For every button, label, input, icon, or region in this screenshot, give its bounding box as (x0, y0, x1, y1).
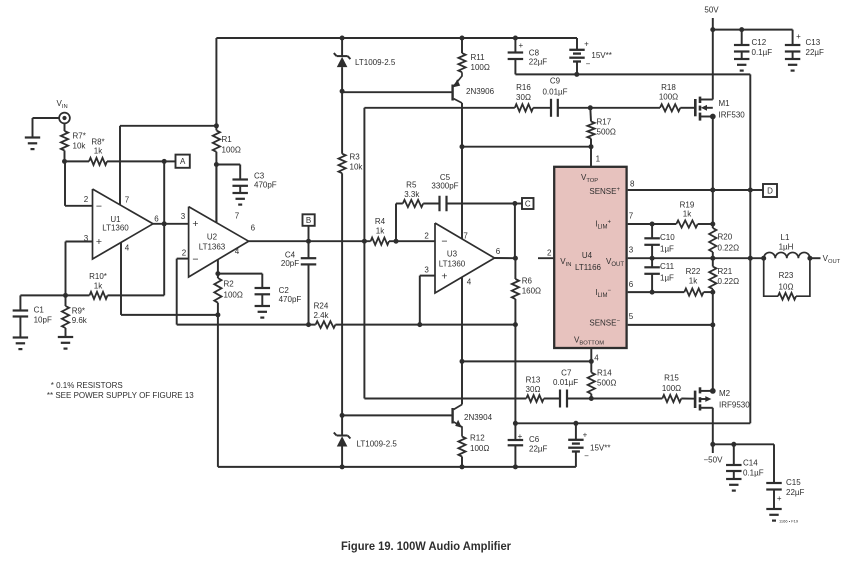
svg-text:3: 3 (424, 265, 429, 274)
svg-text:6: 6 (251, 223, 256, 232)
svg-text:R21: R21 (718, 267, 733, 276)
svg-text:+: + (192, 218, 198, 230)
svg-text:100Ω: 100Ω (659, 93, 678, 102)
svg-text:0.1µF: 0.1µF (743, 468, 764, 477)
svg-text:30Ω: 30Ω (516, 93, 531, 102)
svg-text:−: − (584, 452, 589, 461)
svg-text:3: 3 (629, 245, 634, 254)
svg-text:22µF: 22µF (806, 48, 825, 57)
svg-text:R5: R5 (406, 180, 417, 189)
svg-text:+: + (96, 236, 102, 248)
svg-text:U3: U3 (447, 250, 458, 259)
svg-text:6: 6 (496, 247, 501, 256)
svg-text:C3: C3 (254, 172, 265, 181)
svg-text:500Ω: 500Ω (597, 379, 616, 388)
svg-text:U2: U2 (207, 232, 218, 241)
svg-text:R19: R19 (680, 201, 695, 210)
svg-text:A: A (180, 157, 186, 166)
svg-text:R22: R22 (686, 267, 701, 276)
svg-text:4: 4 (594, 353, 599, 362)
svg-text:C6: C6 (529, 435, 540, 444)
svg-text:2: 2 (547, 248, 552, 257)
svg-text:100Ω: 100Ω (662, 384, 681, 393)
svg-text:6: 6 (629, 280, 634, 289)
svg-text:SENSE−: SENSE− (589, 319, 620, 328)
svg-text:1k: 1k (94, 147, 103, 156)
svg-text:−: − (441, 235, 447, 247)
svg-text:470pF: 470pF (279, 295, 302, 304)
svg-text:0.22Ω: 0.22Ω (718, 277, 740, 286)
svg-text:0.01µF: 0.01µF (553, 378, 578, 387)
svg-text:+: + (518, 41, 523, 50)
svg-text:+: + (584, 40, 589, 49)
svg-text:6: 6 (154, 215, 159, 224)
svg-text:R14: R14 (597, 369, 612, 378)
svg-text:160Ω: 160Ω (522, 287, 541, 296)
svg-text:R18: R18 (661, 83, 676, 92)
svg-text:7: 7 (629, 211, 634, 220)
svg-text:LT1009-2.5: LT1009-2.5 (357, 440, 398, 449)
svg-text:1k: 1k (94, 282, 103, 291)
svg-text:2: 2 (424, 231, 429, 240)
svg-text:R3: R3 (350, 152, 361, 161)
svg-text:R20: R20 (718, 233, 733, 242)
svg-text:LT1360: LT1360 (439, 260, 466, 269)
svg-text:2.4k: 2.4k (313, 311, 329, 320)
svg-text:10Ω: 10Ω (779, 283, 794, 292)
svg-text:Figure 19. 100W Audio Amplifie: Figure 19. 100W Audio Amplifier (341, 539, 511, 553)
svg-text:1µH: 1µH (779, 243, 794, 252)
svg-text:1µF: 1µF (660, 274, 674, 283)
svg-text:22µF: 22µF (786, 488, 805, 497)
svg-text:1166 • F19: 1166 • F19 (779, 519, 799, 524)
svg-text:0.22Ω: 0.22Ω (718, 244, 740, 253)
svg-text:7: 7 (463, 231, 468, 240)
svg-text:R17: R17 (597, 118, 612, 127)
svg-text:2: 2 (182, 249, 187, 258)
svg-text:R12: R12 (470, 434, 485, 443)
svg-text:** SEE POWER SUPPLY OF FIGURE: ** SEE POWER SUPPLY OF FIGURE 13 (47, 391, 194, 400)
svg-text:LT1360: LT1360 (102, 224, 129, 233)
svg-text:IRF530: IRF530 (719, 111, 746, 120)
svg-text:10k: 10k (73, 142, 87, 151)
svg-text:LT1009-2.5: LT1009-2.5 (355, 58, 396, 67)
svg-text:R15: R15 (664, 374, 679, 383)
svg-text:500Ω: 500Ω (597, 128, 616, 137)
svg-text:IRF9530: IRF9530 (719, 400, 750, 409)
svg-text:+: + (796, 32, 801, 41)
svg-text:C8: C8 (529, 49, 540, 58)
svg-text:R1: R1 (222, 135, 233, 144)
svg-text:0.1µF: 0.1µF (752, 48, 773, 57)
svg-text:D: D (767, 186, 773, 195)
svg-text:+: + (518, 432, 523, 441)
svg-text:R7*: R7* (73, 132, 86, 141)
svg-text:R11: R11 (471, 53, 486, 62)
svg-text:C14: C14 (743, 459, 758, 468)
svg-text:9.6k: 9.6k (72, 316, 88, 325)
svg-text:−50V: −50V (704, 456, 724, 465)
svg-text:4: 4 (467, 278, 472, 287)
svg-text:C13: C13 (806, 38, 821, 47)
svg-text:1µF: 1µF (660, 245, 674, 254)
svg-text:−: − (96, 201, 102, 213)
svg-text:10k: 10k (350, 163, 364, 172)
svg-text:C10: C10 (660, 233, 675, 242)
svg-text:R9*: R9* (72, 306, 85, 315)
svg-text:4: 4 (125, 243, 130, 252)
svg-text:3: 3 (181, 212, 186, 221)
svg-text:15V**: 15V** (591, 51, 611, 60)
svg-text:5: 5 (629, 312, 634, 321)
svg-text:8: 8 (630, 179, 635, 188)
svg-text:7: 7 (125, 196, 130, 205)
svg-text:2N3906: 2N3906 (466, 87, 495, 96)
svg-text:C2: C2 (279, 286, 290, 295)
svg-text:B: B (306, 216, 311, 225)
svg-text:* 0.1% RESISTORS: * 0.1% RESISTORS (51, 381, 123, 390)
svg-text:C15: C15 (786, 478, 801, 487)
svg-text:C11: C11 (660, 262, 675, 271)
svg-text:100Ω: 100Ω (470, 444, 489, 453)
svg-text:M2: M2 (719, 389, 731, 398)
svg-text:10pF: 10pF (34, 316, 52, 325)
svg-text:M1: M1 (719, 99, 731, 108)
svg-text:22µF: 22µF (529, 58, 548, 67)
svg-text:3.3k: 3.3k (404, 190, 420, 199)
svg-text:R6: R6 (522, 277, 533, 286)
svg-text:100Ω: 100Ω (471, 63, 490, 72)
svg-text:SENSE+: SENSE+ (589, 187, 620, 196)
svg-text:R10*: R10* (89, 272, 107, 281)
svg-text:3300pF: 3300pF (431, 182, 458, 191)
svg-text:R8*: R8* (91, 138, 104, 147)
svg-text:C12: C12 (752, 38, 767, 47)
svg-text:R4: R4 (375, 217, 386, 226)
svg-text:+: + (441, 270, 447, 282)
svg-text:C: C (525, 199, 531, 208)
svg-text:4: 4 (235, 247, 240, 256)
svg-text:100Ω: 100Ω (222, 146, 241, 155)
svg-text:R24: R24 (314, 302, 329, 311)
svg-text:15V**: 15V** (590, 444, 610, 453)
svg-text:+: + (777, 494, 782, 503)
svg-text:−: − (192, 253, 198, 265)
svg-text:7: 7 (235, 212, 240, 221)
svg-text:C4: C4 (285, 250, 296, 259)
svg-text:LT1166: LT1166 (575, 263, 601, 272)
svg-text:L1: L1 (781, 233, 790, 242)
svg-text:2: 2 (84, 195, 89, 204)
svg-text:R13: R13 (526, 376, 541, 385)
svg-text:R16: R16 (516, 83, 531, 92)
svg-text:R23: R23 (779, 271, 794, 280)
svg-text:LT1363: LT1363 (199, 242, 226, 251)
svg-text:0.01µF: 0.01µF (542, 88, 567, 97)
svg-text:−: − (586, 60, 591, 69)
svg-text:20pF: 20pF (281, 259, 299, 268)
svg-text:22µF: 22µF (529, 445, 548, 454)
svg-text:470pF: 470pF (254, 181, 277, 190)
svg-text:C1: C1 (34, 306, 45, 315)
svg-text:2N3904: 2N3904 (464, 413, 493, 422)
svg-text:3: 3 (84, 234, 89, 243)
svg-text:1k: 1k (689, 277, 698, 286)
svg-text:1k: 1k (683, 210, 692, 219)
svg-text:C7: C7 (561, 369, 572, 378)
svg-text:C9: C9 (550, 77, 561, 86)
svg-text:1: 1 (596, 155, 601, 164)
svg-text:30Ω: 30Ω (526, 385, 541, 394)
svg-text:+: + (583, 431, 588, 440)
svg-text:U4: U4 (582, 251, 593, 260)
svg-text:50V: 50V (704, 6, 719, 15)
svg-text:100Ω: 100Ω (224, 291, 243, 300)
svg-text:R2: R2 (224, 280, 235, 289)
svg-text:1k: 1k (376, 226, 385, 235)
